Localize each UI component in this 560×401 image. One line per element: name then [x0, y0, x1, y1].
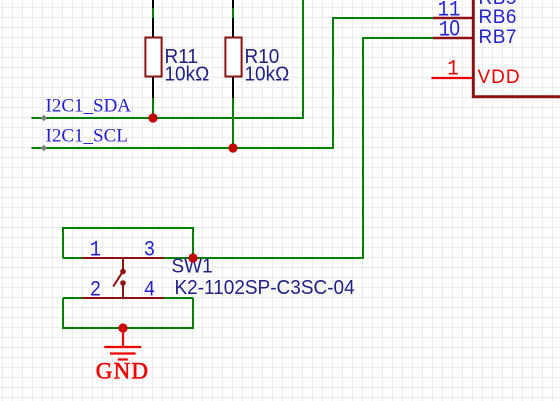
pin R11 bottom lead: [152, 77, 154, 98]
net label I2C1_SDA: [41, 96, 132, 122]
svg-text:K2-1102SP-C3SC-04: K2-1102SP-C3SC-04: [175, 276, 355, 299]
wire top U around SW1 (pins 1-3 row): [63, 228, 193, 258]
wire R10 bottom to I2C1_SCL: [232, 98, 234, 148]
node junction at SW1 pin 3: [188, 253, 197, 262]
net label I2C1_SCL: [41, 126, 128, 152]
wire I2C1_SDA horizontal run and riser to top: [32, 0, 304, 118]
svg-text:2: 2: [90, 278, 101, 303]
svg-text:10kΩ: 10kΩ: [165, 63, 210, 86]
svg-text:I2C1_SCL: I2C1_SCL: [46, 126, 128, 147]
node junction on I2C1_SDA at R11: [148, 113, 157, 122]
wire stub to SW1 pin 1: [63, 257, 82, 259]
node junction at SW1 bottom: [118, 323, 127, 332]
ground: [96, 328, 149, 384]
resistor R10: [225, 38, 289, 86]
wire pin 10 RB7 to switch SW1 pin 3: [193, 38, 433, 258]
pin 11 RB6: [433, 0, 517, 28]
svg-text:4: 4: [144, 278, 155, 303]
IC U1 body border (left edge and bottom, partially off-page): [473, 0, 560, 97]
wire upper net at R11: [152, 8, 154, 18]
pin 10 RB7: [433, 16, 517, 48]
resistor R11: [145, 38, 209, 86]
wire stub from SW1 pin 3 to junction: [164, 257, 193, 259]
node junction on I2C1_SCL at R10: [228, 143, 237, 152]
svg-text:RB7: RB7: [479, 27, 517, 48]
pin R10 top lead: [232, 18, 234, 38]
pin 1 VDD power pin: [432, 57, 521, 88]
svg-text:3: 3: [144, 238, 155, 263]
wire stub to SW1 pin 2: [63, 297, 82, 299]
pin R11 top lead: [152, 18, 154, 38]
wire upper net at R10: [232, 8, 234, 18]
svg-text:GND: GND: [96, 359, 149, 384]
wire bottom U around SW1 (pins 2-4 row): [63, 298, 193, 328]
svg-text:VDD: VDD: [478, 67, 521, 88]
svg-text:1: 1: [447, 57, 458, 82]
wire R11 bottom to I2C1_SDA: [152, 98, 154, 118]
pin R10 bottom lead: [232, 77, 234, 98]
pin of off-page part above R10: [232, 0, 234, 8]
svg-text:1: 1: [90, 238, 101, 263]
svg-text:0: 0: [449, 16, 460, 41]
svg-text:10kΩ: 10kΩ: [245, 63, 290, 86]
switch SW1 push button: [82, 258, 164, 298]
wire I2C1_SCL horizontal run, riser and run to pin 11: [32, 18, 434, 148]
svg-text:I2C1_SDA: I2C1_SDA: [46, 96, 132, 117]
svg-text:RB5: RB5: [479, 0, 517, 9]
pin of off-page part above R11: [152, 0, 154, 8]
svg-text:RB6: RB6: [479, 7, 517, 28]
wire stub to SW1 pin 4: [164, 297, 193, 299]
